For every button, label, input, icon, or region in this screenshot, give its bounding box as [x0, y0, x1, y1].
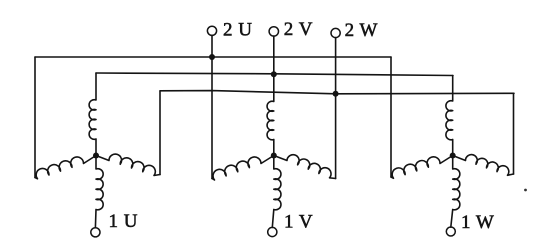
junction group2 star point — [271, 153, 277, 159]
svg-text:1 U: 1 U — [109, 211, 138, 232]
label 2V — [284, 19, 313, 40]
svg-text:1 V: 1 V — [284, 211, 313, 232]
terminal 2W — [331, 28, 340, 37]
coil group2 right winding — [274, 155, 336, 179]
svg-text:2 U: 2 U — [223, 19, 252, 40]
terminal 1U — [91, 228, 100, 237]
wire group3 right leg (bus3 right end down) — [513, 94, 515, 175]
coil group1 left winding — [35, 156, 96, 179]
junction 2W on bus 3 — [333, 91, 339, 97]
coil group3 top winding — [446, 76, 453, 156]
coil group1 top winding — [89, 73, 96, 156]
coil group2 left winding — [212, 156, 274, 181]
coil group2 bottom winding — [272, 156, 281, 228]
label 2W — [345, 20, 378, 41]
terminal 2U — [207, 26, 216, 35]
svg-text:1 W: 1 W — [461, 212, 494, 233]
wire bus 3 (2W rail) — [160, 91, 514, 94]
scan speck — [524, 189, 527, 192]
coil group1 bottom winding — [95, 156, 103, 228]
junction group3 star point — [450, 153, 456, 159]
coil group3 bottom winding — [451, 156, 460, 228]
junction 2U on bus 1 — [209, 54, 215, 60]
junction group1 star point — [93, 153, 99, 159]
coil group3 left winding — [391, 156, 453, 179]
wire bus 2 (2V rail) — [96, 73, 453, 76]
svg-text:2 W: 2 W — [345, 20, 378, 41]
wire 2W vertical (terminal to group 2 right leg) — [335, 38, 337, 179]
wire 2U vertical (terminal to group 2 left leg) — [211, 35, 213, 178]
label 1V — [284, 211, 313, 232]
wire group1 left leg (bus1 left end down) — [34, 57, 36, 178]
terminal 2V — [269, 27, 278, 36]
label 1W — [461, 212, 494, 233]
coil group1 right winding — [96, 154, 160, 175]
label 2U — [223, 19, 252, 40]
svg-text:2 V: 2 V — [284, 19, 313, 40]
wire group3 left leg (bus1 right end down) — [390, 57, 392, 177]
terminal 1V — [268, 227, 277, 236]
coil group3 right winding — [453, 155, 514, 176]
wire group1 right leg (bus3 left end down) — [159, 91, 161, 175]
coil group2 top winding (from 2V) — [267, 36, 274, 155]
label 1U — [109, 211, 138, 232]
wire bus 1 (2U rail) — [35, 56, 391, 58]
terminal 1W — [446, 227, 455, 236]
junction 2V on bus 2 — [271, 71, 277, 77]
